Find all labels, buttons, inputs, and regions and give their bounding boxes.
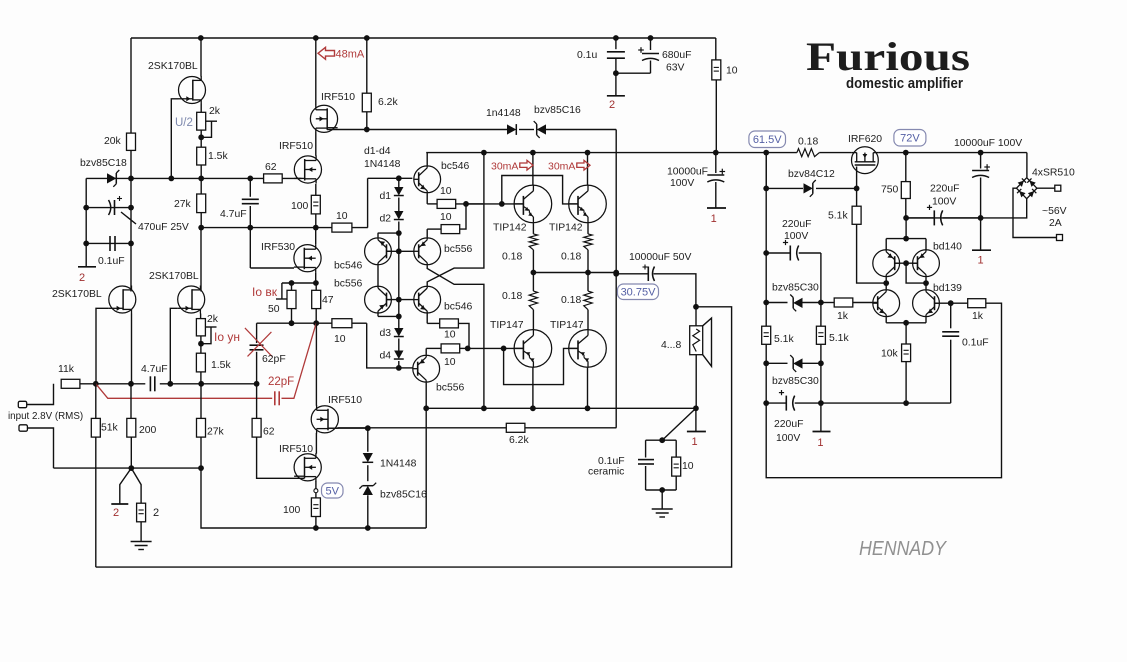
svg-text:0.18: 0.18 bbox=[502, 252, 522, 263]
svg-text:4xSR510: 4xSR510 bbox=[1032, 168, 1075, 179]
svg-text:1N4148: 1N4148 bbox=[380, 459, 417, 470]
svg-text:Iо вк: Iо вк bbox=[252, 285, 278, 299]
svg-text:d4: d4 bbox=[379, 351, 391, 362]
svg-text:bc556: bc556 bbox=[444, 244, 473, 255]
svg-text:0.1u: 0.1u bbox=[577, 50, 597, 61]
svg-text:47: 47 bbox=[322, 295, 334, 306]
svg-text:bzv85C30: bzv85C30 bbox=[772, 283, 819, 294]
svg-text:IRF510: IRF510 bbox=[321, 92, 355, 103]
svg-text:11k: 11k bbox=[58, 364, 75, 375]
svg-text:bc546: bc546 bbox=[334, 261, 363, 272]
svg-text:30.75V: 30.75V bbox=[621, 287, 657, 299]
svg-text:220uF: 220uF bbox=[774, 419, 803, 430]
svg-text:2k: 2k bbox=[209, 106, 221, 117]
svg-text:IRF620: IRF620 bbox=[848, 134, 882, 145]
svg-text:5.1k: 5.1k bbox=[829, 333, 849, 344]
svg-text:10: 10 bbox=[444, 357, 456, 368]
svg-text:200: 200 bbox=[139, 425, 157, 436]
svg-text:d2: d2 bbox=[379, 214, 391, 225]
svg-text:100: 100 bbox=[291, 201, 309, 212]
svg-text:10: 10 bbox=[682, 461, 694, 472]
svg-text:220uF: 220uF bbox=[782, 219, 811, 230]
svg-text:470uF 25V: 470uF 25V bbox=[138, 222, 189, 233]
svg-text:62: 62 bbox=[265, 162, 277, 173]
svg-text:20k: 20k bbox=[104, 136, 122, 147]
svg-text:1k: 1k bbox=[972, 311, 984, 322]
svg-text:220uF: 220uF bbox=[930, 184, 959, 195]
svg-text:TIP142: TIP142 bbox=[493, 223, 527, 234]
svg-text:10000uF 100V: 10000uF 100V bbox=[954, 138, 1022, 149]
svg-text:IRF510: IRF510 bbox=[328, 395, 362, 406]
svg-text:0.1uF: 0.1uF bbox=[98, 256, 125, 267]
svg-text:1.5k: 1.5k bbox=[211, 360, 231, 371]
svg-text:5V: 5V bbox=[326, 485, 340, 497]
svg-text:100V: 100V bbox=[776, 433, 800, 444]
svg-text:6.2k: 6.2k bbox=[509, 435, 529, 446]
svg-text:TIP147: TIP147 bbox=[550, 320, 584, 331]
svg-text:2A: 2A bbox=[1049, 218, 1062, 229]
svg-text:0.18: 0.18 bbox=[798, 137, 818, 148]
svg-text:~56V: ~56V bbox=[1042, 206, 1067, 217]
svg-text:0.18: 0.18 bbox=[561, 252, 581, 263]
svg-text:TIP142: TIP142 bbox=[549, 223, 583, 234]
svg-text:10: 10 bbox=[444, 330, 456, 341]
svg-text:IRF530: IRF530 bbox=[261, 242, 295, 253]
svg-text:1: 1 bbox=[978, 255, 984, 267]
svg-text:10000uF 50V: 10000uF 50V bbox=[629, 252, 691, 263]
svg-text:IRF510: IRF510 bbox=[279, 141, 313, 152]
svg-text:input 2.8V (RMS): input 2.8V (RMS) bbox=[8, 411, 83, 422]
svg-text:bzv85C18: bzv85C18 bbox=[80, 158, 127, 169]
svg-text:62: 62 bbox=[263, 427, 275, 438]
svg-text:100V: 100V bbox=[670, 178, 694, 189]
svg-text:5.1k: 5.1k bbox=[774, 334, 794, 345]
svg-text:2: 2 bbox=[609, 99, 615, 111]
svg-text:bzv85C16: bzv85C16 bbox=[534, 105, 581, 116]
svg-text:1.5k: 1.5k bbox=[208, 151, 228, 162]
svg-text:bzv85C30: bzv85C30 bbox=[772, 376, 819, 387]
svg-text:10: 10 bbox=[440, 186, 452, 197]
svg-text:0.18: 0.18 bbox=[502, 291, 522, 302]
svg-text:750: 750 bbox=[881, 185, 899, 196]
svg-text:0.1uF: 0.1uF bbox=[598, 456, 625, 467]
svg-text:0.18: 0.18 bbox=[561, 295, 581, 306]
svg-text:1: 1 bbox=[711, 213, 717, 225]
svg-text:1: 1 bbox=[691, 436, 697, 448]
svg-text:1n4148: 1n4148 bbox=[486, 108, 521, 119]
svg-text:100V: 100V bbox=[784, 231, 808, 242]
svg-text:domestic amplifier: domestic amplifier bbox=[846, 75, 963, 92]
svg-text:10: 10 bbox=[334, 334, 346, 345]
svg-text:10: 10 bbox=[336, 211, 348, 222]
svg-text:TIP147: TIP147 bbox=[490, 320, 524, 331]
svg-text:bc556: bc556 bbox=[436, 383, 465, 394]
svg-text:2: 2 bbox=[113, 507, 119, 519]
svg-text:30mA: 30mA bbox=[491, 161, 518, 173]
svg-text:bc546: bc546 bbox=[444, 302, 473, 313]
svg-text:61.5V: 61.5V bbox=[753, 134, 782, 146]
svg-text:63V: 63V bbox=[666, 63, 685, 74]
svg-text:10k: 10k bbox=[881, 349, 899, 360]
svg-text:6.2k: 6.2k bbox=[378, 97, 398, 108]
svg-text:bzv84C12: bzv84C12 bbox=[788, 169, 835, 180]
svg-text:10: 10 bbox=[440, 212, 452, 223]
svg-text:22pF: 22pF bbox=[268, 376, 294, 388]
svg-text:Furious: Furious bbox=[806, 34, 970, 79]
svg-text:4...8: 4...8 bbox=[661, 340, 681, 351]
svg-text:HENNADY: HENNADY bbox=[859, 538, 947, 560]
svg-text:d1: d1 bbox=[379, 191, 391, 202]
svg-text:10: 10 bbox=[726, 66, 738, 77]
svg-text:2SK170BL: 2SK170BL bbox=[148, 61, 198, 72]
svg-text:1N4148: 1N4148 bbox=[364, 159, 401, 170]
svg-text:4.7uF: 4.7uF bbox=[220, 209, 247, 220]
svg-text:U/2: U/2 bbox=[175, 117, 193, 129]
svg-text:2SK170BL: 2SK170BL bbox=[149, 271, 199, 282]
svg-text:2: 2 bbox=[153, 507, 159, 519]
svg-text:bc546: bc546 bbox=[441, 161, 470, 172]
svg-text:bc556: bc556 bbox=[334, 279, 363, 290]
svg-text:Iо ун: Iо ун bbox=[214, 330, 240, 344]
svg-text:IRF510: IRF510 bbox=[279, 444, 313, 455]
svg-text:0.1uF: 0.1uF bbox=[962, 338, 989, 349]
svg-text:2: 2 bbox=[79, 272, 85, 284]
svg-text:2SK170BL: 2SK170BL bbox=[52, 289, 102, 300]
svg-text:51k: 51k bbox=[101, 423, 119, 434]
svg-text:10000uF: 10000uF bbox=[667, 167, 708, 178]
svg-text:4.7uF: 4.7uF bbox=[141, 364, 168, 375]
svg-text:5.1k: 5.1k bbox=[828, 211, 848, 222]
svg-text:bd140: bd140 bbox=[933, 242, 962, 253]
svg-text:2k: 2k bbox=[207, 314, 219, 325]
svg-text:72V: 72V bbox=[900, 133, 920, 145]
svg-text:27k: 27k bbox=[207, 427, 225, 438]
svg-text:50: 50 bbox=[268, 304, 280, 315]
svg-text:27k: 27k bbox=[174, 199, 192, 210]
svg-text:48mA: 48mA bbox=[336, 49, 365, 61]
svg-text:bzv85C16: bzv85C16 bbox=[380, 490, 427, 501]
svg-text:bd139: bd139 bbox=[933, 283, 962, 294]
svg-text:d3: d3 bbox=[379, 328, 391, 339]
svg-text:1: 1 bbox=[817, 437, 823, 449]
svg-text:d1-d4: d1-d4 bbox=[364, 146, 391, 157]
svg-text:100: 100 bbox=[283, 505, 301, 516]
svg-text:62pF: 62pF bbox=[262, 354, 286, 365]
svg-text:1k: 1k bbox=[837, 311, 849, 322]
svg-text:680uF: 680uF bbox=[662, 50, 691, 61]
svg-text:30mA: 30mA bbox=[548, 161, 575, 173]
svg-text:ceramic: ceramic bbox=[588, 467, 624, 478]
svg-text:100V: 100V bbox=[932, 197, 956, 208]
